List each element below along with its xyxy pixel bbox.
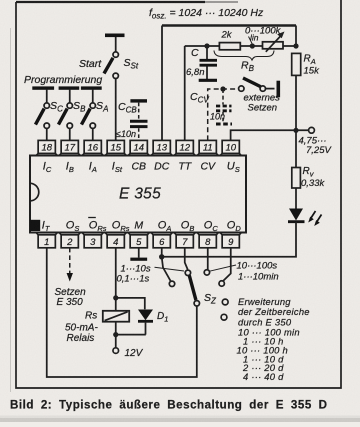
pin 8 box (bottom) (197, 233, 219, 249)
wire: oscillator box right edge top (295, 26, 297, 47)
wire: oscillator box left edge down to pin 13 DC (161, 26, 163, 141)
pin 13 box (top) (151, 140, 173, 155)
switch S_B (Programmierung) (58, 86, 79, 140)
wire: Rv to LED (295, 188, 297, 209)
wire: pin 8 OC to contact 3 (207, 248, 209, 269)
pin 18 box (top) (36, 140, 58, 155)
wire: oscillator rail y=46 (185, 45, 296, 47)
wire: pin 2 O_S dashed arrow to Setzen E350 (69, 248, 71, 274)
page fold line artifact (10, 28, 12, 392)
note: Erweiterung der Zeitbereiche durch E 350 table (237, 296, 310, 382)
switch SZ contact 4 (219, 281, 224, 286)
pin 15 box (top) (105, 140, 127, 155)
brace for RB (214, 51, 274, 61)
pin 6 box (bottom) (151, 233, 173, 249)
pin 1 box (bottom) (36, 233, 58, 249)
switch SZ spare contact 2 (221, 314, 227, 320)
wire: leader from 0 label to wiper node (249, 37, 253, 44)
wire: CV pin 11 dashed riser (208, 89, 239, 140)
pin 4 box (bottom) (105, 233, 127, 249)
pin 14 box (top) (128, 140, 150, 155)
wire: bottom rail to D1 (116, 334, 146, 336)
capacitor CCB (dashed to pin 14) (130, 99, 148, 140)
resistor Rv 0,33k (292, 168, 301, 189)
wire: relay node to D1 (116, 298, 145, 309)
relay Rs coil (103, 311, 129, 322)
switch SZ contact 3 (204, 270, 209, 275)
node: relay top junction (113, 295, 118, 300)
LED diode (288, 209, 322, 227)
switch SZ spare contact 1 (222, 299, 228, 305)
node: US supply junction (293, 128, 298, 133)
wire: pin 1 I_T down-left return (47, 248, 197, 377)
terminal: supply 4,75...7,25V (309, 127, 315, 133)
wire: TT pin 12 riser (184, 46, 186, 140)
node: wiper junction (250, 43, 255, 48)
wire: supply down to Rv (295, 130, 297, 167)
potentiometer 0...100k lin (263, 32, 285, 52)
pin 12 box (top) (174, 140, 196, 155)
node: RA top junction (293, 43, 298, 48)
wire: pin 7 OB to contact 2 (185, 248, 188, 270)
IC notch (30, 183, 39, 201)
diode D1 (138, 310, 153, 335)
node: relay bottom junction (113, 332, 118, 337)
capacitor C 6,8n (199, 46, 217, 80)
switch S_C (Programmierung) (32, 86, 54, 140)
wire: pin 9 OD to contact 4 (223, 248, 230, 281)
wire: 12V stub (115, 335, 117, 348)
wire: US pin 10 riser and supply node (231, 130, 309, 140)
switch SZ pivot (194, 301, 199, 306)
switch S_St (Start) (104, 34, 125, 141)
wire: relay node into relay (115, 298, 117, 311)
switch externes Setzen (239, 78, 281, 97)
node: CCV junction (220, 86, 225, 91)
wire: RA bottom to US node (295, 75, 297, 130)
pin 3 box (bottom) (82, 233, 104, 249)
bottom scan shadow (0, 418, 360, 422)
switch SZ lever (189, 276, 196, 301)
wire: pin 6 OA to node and contact 1 (162, 248, 171, 281)
wire: pin 4 O_Rs down to relay node (115, 248, 117, 298)
switch SZ contact 2 (185, 270, 190, 275)
pin 7 box (bottom) (174, 233, 196, 249)
switch S_A (Programmierung) (81, 86, 102, 140)
pin 11 box (top) (197, 140, 219, 155)
terminal 12V (113, 348, 119, 354)
node: OA / LED junction (159, 254, 164, 259)
wire: relay bottom to 12V node (115, 322, 117, 335)
pin 9 box (bottom) (220, 233, 242, 249)
node: C junction (204, 43, 209, 48)
switch SZ contact 1 (169, 281, 174, 286)
wire: LED return to OA node (162, 222, 296, 257)
pin 10 box (top) (220, 140, 242, 155)
resistor RA 15k (292, 53, 301, 75)
pin 17 box (top) (59, 140, 81, 155)
frame top edge (fades right) (16, 1, 205, 3)
paper grain overlay (0, 0, 1, 1)
ground bar at pin 5 M (130, 248, 147, 261)
op IC E355 body (30, 156, 246, 233)
wire: oscillator box top edge (162, 24, 296, 26)
pin 2 box (bottom) (59, 233, 81, 249)
pin 5 box (bottom) (128, 233, 150, 249)
resistor 2k (219, 43, 240, 50)
capacitor CCV 10n (dashed) (216, 89, 232, 124)
pin 16 box (top) (82, 140, 104, 155)
IC pin-1 marker square (30, 220, 40, 231)
